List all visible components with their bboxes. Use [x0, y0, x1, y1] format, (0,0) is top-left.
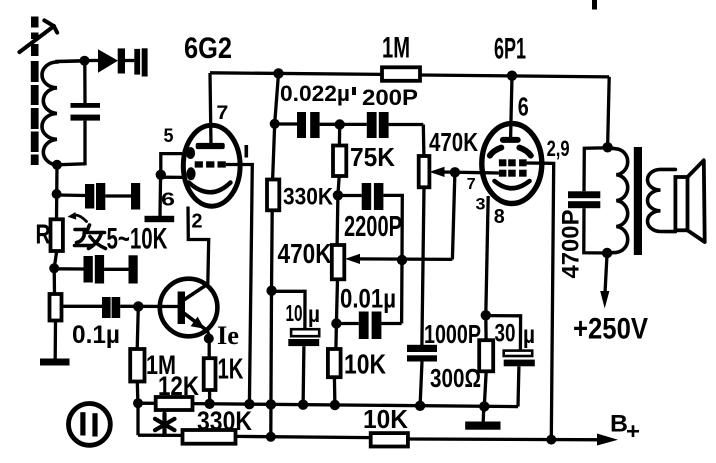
svg-text:5: 5	[164, 126, 174, 147]
top wire: plate line left part	[210, 73, 382, 75]
resistor 1K	[204, 358, 216, 390]
capacitor after diode	[125, 48, 148, 76]
wire: 1K to bus1	[208, 390, 211, 404]
label pin 1 6G2	[245, 145, 249, 158]
svg-text:Ie: Ie	[217, 321, 239, 350]
circled 11 figure number	[69, 404, 111, 446]
4700P branch: top lead	[584, 148, 608, 192]
ink speck after 0.022u	[352, 87, 356, 95]
wire: 1M to bus1	[136, 382, 140, 404]
link bus1 to bus2	[136, 403, 139, 435]
svg-text:300Ω: 300Ω	[430, 363, 481, 393]
wire: left column down to R	[55, 165, 59, 220]
svg-text:µ: µ	[308, 301, 320, 327]
antenna arrow	[19, 20, 57, 52]
svg-text:75K: 75K	[350, 142, 395, 172]
detector diode D1	[85, 48, 126, 73]
6P1 screen lead right to bus2	[527, 163, 554, 440]
wire: 1000P to bus1	[420, 362, 422, 406]
svg-text:1K: 1K	[218, 354, 244, 386]
collector wire to 6G2 pin 2	[188, 207, 209, 285]
capacitor 0.022u	[275, 112, 340, 138]
node: 0.01u tap	[331, 318, 341, 328]
wire: pot to ground	[54, 321, 58, 359]
svg-text:30: 30	[495, 320, 516, 348]
node: 2200P tap	[333, 190, 343, 200]
wire: riser down to 0.01u	[400, 260, 404, 324]
svg-text:5~10K: 5~10K	[107, 223, 168, 256]
wire: 75K to 2200P tap	[338, 176, 339, 195]
ground (pin 6)	[145, 216, 175, 222]
node: 0.022u left	[270, 119, 280, 129]
4700P bottom lead	[584, 208, 607, 253]
bus1 junction dots	[204, 399, 489, 412]
capacitor 10u electrolytic	[288, 329, 319, 405]
volume pot (box)	[50, 294, 62, 321]
6P1 grid lead inside	[482, 171, 499, 175]
wire: 10K to bus1	[333, 377, 337, 405]
svg-text:R: R	[36, 219, 51, 250]
6G2 cathode arc	[189, 183, 231, 193]
svg-text:12K: 12K	[158, 371, 199, 401]
ground (left)	[40, 359, 70, 366]
wire: 0.01u tap to 10K	[334, 324, 338, 350]
resistor 1M (top)	[382, 67, 420, 81]
node: upper coupling cap tap	[52, 189, 62, 199]
speaker cone	[688, 160, 705, 242]
tuning capacitor C1	[57, 61, 100, 165]
svg-text:330K: 330K	[283, 184, 334, 211]
svg-text:470K: 470K	[429, 127, 478, 157]
node: cathode junction	[481, 310, 491, 320]
capacitor 30u electrolytic	[504, 351, 535, 407]
wire: tap down crossing bus1 to bus2	[269, 291, 273, 437]
wire: 470K down to 1000P	[422, 187, 424, 345]
label gai (Chinese "change")	[75, 225, 106, 249]
resistor 10K (cathode chain)	[328, 349, 341, 377]
bus1: left segment	[138, 402, 156, 405]
6G2 grid lead to pin 1 wire	[226, 165, 253, 405]
svg-text:0.1µ: 0.1µ	[72, 321, 120, 349]
wire: R to lower tap	[54, 251, 57, 268]
coupling capacitor upper	[57, 183, 141, 210]
node: coil bottom junction	[52, 160, 62, 170]
top edge registration mark	[592, 0, 597, 10]
node: emitter	[204, 334, 214, 344]
svg-text:10K: 10K	[344, 349, 386, 380]
6P1 cathode arc	[495, 181, 530, 188]
svg-text:10K: 10K	[363, 404, 408, 434]
svg-text:1000P: 1000P	[424, 319, 481, 349]
svg-text:1M: 1M	[382, 32, 410, 65]
node: transformer bottom	[602, 248, 612, 258]
resistor R (box)	[51, 219, 63, 251]
10u branch wire	[272, 291, 305, 329]
pin 5 lead	[161, 154, 182, 175]
svg-text:µ: µ	[523, 321, 535, 349]
ferrite rod (dashed core)	[31, 17, 39, 166]
resistor 1M	[130, 349, 144, 382]
svg-text:6: 6	[161, 190, 175, 210]
bus1 left end	[133, 398, 143, 408]
svg-text:4700P: 4700P	[558, 210, 585, 279]
6G2 diode-plate contacts	[186, 147, 195, 159]
wiper arrow into 470K	[429, 167, 444, 177]
capacitor 2200P	[338, 183, 402, 260]
node: 10u tap	[266, 286, 276, 296]
svg-text:+: +	[626, 418, 640, 444]
output transformer primary	[607, 148, 628, 253]
node: bus2 / left chain	[266, 432, 276, 442]
6G2 plate and pin 7 riser	[196, 73, 225, 149]
30u branch wire	[486, 316, 521, 351]
svg-text:200P: 200P	[362, 85, 418, 110]
B+ arrowhead	[597, 434, 618, 446]
wire: down to volume pot	[53, 268, 57, 294]
coupling capacitor lower	[54, 255, 138, 284]
speaker driver	[675, 177, 687, 230]
svg-text:6G2: 6G2	[184, 32, 232, 65]
svg-text:7: 7	[216, 103, 228, 124]
resistor 330K (upper)	[267, 180, 279, 211]
resistor 12K	[156, 397, 193, 410]
capacitor 200P	[340, 112, 424, 138]
svg-text:10: 10	[286, 300, 303, 326]
6G2 grid (dashed)	[195, 161, 226, 167]
6P1 grid wire (left)	[442, 170, 482, 174]
node: lower coupling cap tap	[49, 263, 59, 273]
svg-text:2200P: 2200P	[344, 211, 402, 243]
node: transistor base	[133, 301, 143, 311]
pot adjust arrow over R	[73, 215, 87, 222]
6P1 control grid blocks	[499, 159, 527, 176]
svg-text:2,9: 2,9	[547, 136, 570, 161]
svg-text:+250V: +250V	[573, 313, 648, 346]
svg-text:8: 8	[494, 206, 505, 228]
wire: pot down to 0.01u tap	[336, 279, 337, 323]
wire: base junction down to 1M	[137, 306, 138, 349]
bus2: left segment	[138, 434, 183, 437]
transformer core	[634, 147, 642, 255]
node: transformer top	[602, 142, 612, 152]
svg-text:6P1: 6P1	[494, 33, 526, 66]
wire: 2200P tap down to 470K pot	[335, 195, 339, 245]
bus2: middle run	[236, 436, 371, 437]
node: coil top / diode junction	[80, 56, 90, 66]
wire: down from grid node to y259 run	[452, 172, 455, 259]
antenna coil L1	[42, 61, 85, 165]
capacitor 0.1u	[102, 297, 179, 318]
svg-text:470K: 470K	[278, 238, 332, 269]
svg-text:2: 2	[192, 211, 203, 233]
node: between 0.022u and 200P	[335, 119, 345, 129]
resistor 300ohm	[479, 340, 493, 371]
wiper wire to 0.1u	[62, 305, 103, 308]
bus2: right run to B+	[408, 437, 612, 441]
node: pin5/6 junction	[156, 170, 166, 180]
svg-text:0.01µ: 0.01µ	[340, 284, 396, 314]
node: 0.022u branch on top wire	[273, 68, 283, 78]
wire: 200P corner down to 470K	[422, 125, 426, 157]
transistor Q1	[160, 279, 218, 337]
6P1 screen dashes	[490, 148, 531, 156]
6P1 tube envelope U2	[482, 124, 542, 204]
asterisk	[155, 414, 175, 436]
wire: 75K riser	[338, 125, 342, 146]
resistor 470K (6P1 grid)	[419, 156, 430, 187]
wire: junction to ground	[158, 175, 162, 216]
wire: left chain down through 330K	[273, 124, 275, 180]
emitter wire	[208, 331, 210, 358]
wire: top wire corner down to transformer	[608, 77, 610, 147]
6P1 plate and pin 6 riser	[500, 76, 521, 143]
wire: 300ohm to bus1	[484, 371, 486, 406]
ground (cathode)	[465, 406, 500, 429]
svg-text:6: 6	[518, 92, 529, 122]
6P1 cathode riser pins 3,8	[486, 196, 488, 315]
output transformer secondary	[648, 169, 676, 231]
resistor 10K (bottom)	[371, 433, 408, 446]
svg-text:0.022µ: 0.022µ	[280, 81, 350, 106]
node: grid wire / pot riser	[450, 167, 460, 177]
svg-text:7: 7	[467, 176, 476, 193]
svg-text:3: 3	[476, 195, 486, 214]
pot 470K (regen)	[332, 245, 345, 279]
resistor 75K	[333, 146, 346, 177]
capacitor 1000P	[407, 345, 437, 362]
resistor 330K (bottom)	[183, 430, 236, 444]
pin 6 lead	[161, 176, 183, 179]
wire: cathode to 300ohm	[484, 315, 488, 340]
wire: +250V feed with arrow	[600, 253, 609, 309]
node: 0.01u/2200P riser junction	[397, 255, 407, 265]
wire: top-left branch down	[275, 73, 279, 123]
top wire: right part	[420, 75, 609, 77]
wiper arrow into 470K pot	[345, 254, 452, 264]
node: 6P1 plate branch	[507, 71, 517, 81]
svg-text:330K: 330K	[197, 406, 252, 436]
capacitor 0.01u	[336, 312, 401, 340]
6G2 tube envelope U1	[183, 125, 240, 206]
node: bus2 / 6P1 screen	[546, 435, 556, 445]
bus1: main run	[193, 404, 519, 407]
wire: 330K to 10u tap	[270, 210, 274, 290]
capacitor 4700P	[568, 191, 600, 208]
